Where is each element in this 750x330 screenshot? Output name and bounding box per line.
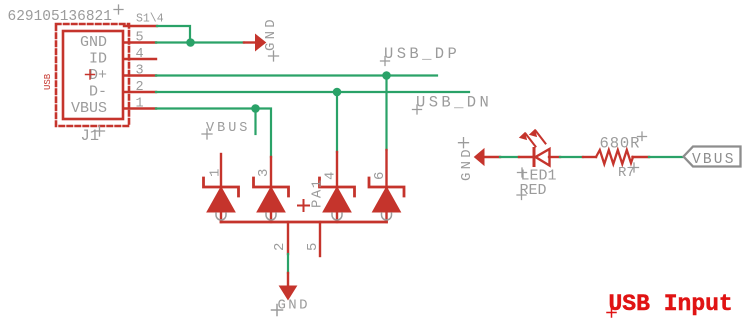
TVS diode array diode 2 [254, 178, 289, 222]
wire pin5 GND to ground symbol [156, 41, 244, 43]
TVS diode array D1 pin 1 lead [220, 154, 222, 186]
svg-text:D-: D- [89, 84, 107, 101]
wire S1\4 to GND junction (net GND) [157, 26, 190, 43]
svg-text:J1: J1 [81, 127, 100, 145]
wire USB_DP branch down to diode pin 6 [385, 76, 387, 151]
TVS diode array common cathode rail [221, 221, 387, 224]
wire net USB_DN from pin2 [156, 91, 469, 93]
ground symbol GND (LED, left-pointing) [475, 149, 485, 165]
svg-text:GND: GND [80, 34, 107, 51]
TVS diode array diode 3 [320, 178, 355, 222]
net label VBUS [202, 121, 250, 139]
svg-text:D+: D+ [89, 67, 107, 84]
TVS diode array diode 4 [369, 178, 404, 222]
svg-text:GND: GND [459, 146, 475, 181]
TVS diode array diode 2 hidden pin mark [266, 213, 276, 220]
TVS diode array D1 pin 3 lead [270, 157, 272, 186]
svg-text:5: 5 [305, 243, 321, 251]
connector J1 pin 3 stub [124, 74, 156, 76]
ground symbol GND (right-pointing, top) [256, 35, 266, 51]
svg-text:PA1: PA1 [310, 178, 326, 208]
LED LED1 [520, 130, 550, 166]
ground symbol GND label (bottom) [272, 298, 310, 316]
junction on USB_DN [333, 88, 342, 97]
connector J1 D+ origin cross (red) [86, 70, 95, 79]
ground symbol GND (bottom, down-pointing) pin [287, 273, 289, 286]
svg-text:ID: ID [89, 51, 107, 68]
net label USB_DP [381, 45, 461, 66]
svg-text:3: 3 [256, 169, 272, 177]
ground symbol GND (right-pointing, top) pin [244, 41, 256, 43]
svg-text:629105136821: 629105136821 [8, 9, 112, 25]
TVS diode array diode 4 hidden pin mark [382, 213, 392, 220]
junction on VBUS [251, 104, 260, 113]
resistor R7 name [618, 163, 639, 181]
svg-text:1: 1 [208, 169, 224, 177]
svg-text:USB_DN: USB_DN [416, 94, 492, 112]
connector J1 pin 1 stub [124, 107, 156, 109]
connector J1 reference designator J1 [81, 126, 105, 145]
connector J1 pin S1\4 stub [124, 25, 157, 27]
svg-text:GND: GND [278, 298, 310, 314]
TVS diode array origin cross [298, 200, 309, 211]
svg-text:2: 2 [272, 243, 288, 251]
svg-text:VBUS: VBUS [206, 121, 250, 136]
wire net USB_DP from pin3 [156, 74, 437, 76]
TVS diode array diode 1 [204, 178, 239, 222]
svg-text:VBUS: VBUS [692, 152, 736, 168]
TVS diode array pin 2 lead down [287, 222, 289, 254]
TVS diode array pin 5 stub [319, 222, 321, 256]
LED1 cathode pin [519, 156, 534, 158]
TVS diode array diode 3 hidden pin mark [332, 213, 342, 220]
svg-text:GND: GND [263, 16, 279, 51]
connector J1 body rectangle [63, 31, 123, 119]
LED1 name label [518, 168, 557, 185]
resistor R7 zigzag [596, 150, 633, 164]
svg-text:RED: RED [520, 182, 547, 199]
ground symbol GND (bottom, down-pointing) [280, 286, 297, 300]
wire VBUS label stub [254, 109, 256, 135]
ground symbol GND label (LED, vertical) [459, 138, 476, 181]
wire USB_DN branch down to diode pin 4 [336, 92, 338, 152]
svg-text:USB_DP: USB_DP [384, 45, 460, 63]
connector J1 pin 4 stub [124, 58, 156, 60]
wire pin2 to ground [287, 254, 289, 273]
net flag VBUS [684, 147, 741, 168]
resistor R7 right pin [633, 156, 650, 158]
svg-text:6: 6 [372, 172, 388, 180]
svg-text:S1\4: S1\4 [136, 13, 164, 26]
TVS diode array D1 pin 6 lead [385, 150, 387, 186]
junction on GND net [186, 38, 195, 47]
svg-text:680R: 680R [600, 134, 641, 152]
svg-text:USB Input: USB Input [609, 291, 733, 317]
net label USB_DN [413, 94, 493, 115]
LED1 anode pin [549, 156, 560, 158]
TVS diode array diode 1 hidden pin mark [216, 213, 226, 220]
ground symbol GND (LED) pin [484, 156, 500, 158]
connector J1 dashed shield outline [56, 24, 129, 126]
TVS diode array D1 pin 4 lead [336, 152, 338, 186]
resistor R7 left pin [583, 156, 596, 158]
wire R7 to VBUS flag [649, 156, 683, 158]
svg-text:VBUS: VBUS [71, 100, 107, 117]
svg-text:USB: USB [43, 73, 53, 90]
ground symbol GND label (vertical) [263, 16, 279, 61]
sheet title USB Input [607, 291, 733, 317]
resistor R7 value 680R [600, 132, 647, 152]
connector J1 pin 2 stub [124, 91, 156, 93]
LED1 value label RED [517, 182, 547, 200]
wire LED1 to R7 [560, 156, 583, 158]
connector J1 pin 5 stub [124, 41, 156, 43]
junction on USB_DP [382, 71, 391, 80]
wire net VBUS from pin1 [156, 109, 271, 158]
wire GND to LED1 cathode [500, 156, 519, 158]
connector J1 part number label 629105136821 [8, 5, 124, 25]
